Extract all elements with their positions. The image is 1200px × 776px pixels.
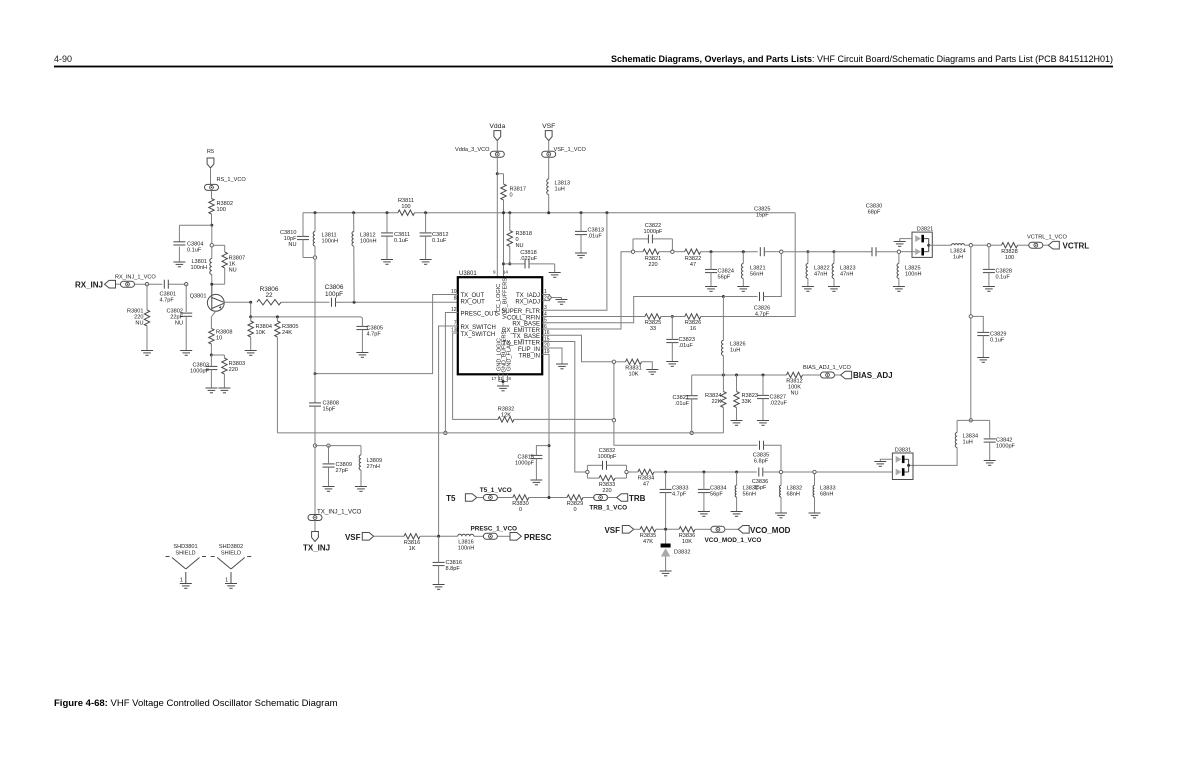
svg-text:C3810: C3810 (280, 230, 296, 236)
svg-text:1uH: 1uH (963, 440, 973, 446)
node junction (502, 380, 505, 383)
wire (497, 535, 510, 537)
svg-text:NU: NU (516, 243, 524, 249)
svg-text:RS_1_VCO: RS_1_VCO (217, 177, 247, 183)
wire (250, 302, 252, 317)
node junction (580, 211, 583, 214)
wire (302, 213, 304, 237)
wire bias bottom rail (277, 432, 723, 434)
wire (223, 374, 225, 388)
svg-text:R3836: R3836 (679, 533, 695, 539)
svg-text:R3801: R3801 (127, 309, 143, 315)
svg-text:TRB_1_VCO: TRB_1_VCO (589, 505, 627, 512)
wire RX_BASE pin 5 (542, 297, 723, 323)
svg-text:C3822: C3822 (645, 223, 661, 229)
svg-text:.01uF: .01uF (588, 234, 603, 240)
svg-text:1000pF: 1000pF (515, 461, 535, 467)
wire (178, 225, 180, 242)
svg-text:NU: NU (175, 321, 183, 327)
svg-text:C3801: C3801 (160, 292, 176, 298)
node junction (352, 211, 355, 214)
node junction (508, 262, 511, 265)
svg-text:C3802: C3802 (167, 309, 183, 315)
wire (210, 355, 212, 366)
svg-text:47nH: 47nH (814, 272, 827, 278)
ground (666, 362, 678, 367)
wire (834, 251, 872, 253)
svg-text:RX_INJ: RX_INJ (75, 281, 103, 290)
wire (762, 399, 764, 421)
wire collector (224, 301, 251, 303)
wire (988, 247, 990, 269)
ground (646, 370, 658, 375)
wire (328, 467, 330, 486)
svg-text:4.7pF: 4.7pF (160, 298, 175, 304)
svg-text:R3832: R3832 (498, 407, 514, 413)
svg-text:0: 0 (573, 507, 576, 513)
wire (722, 375, 724, 392)
svg-text:22: 22 (265, 292, 273, 299)
wire TX_INJ column (314, 259, 316, 403)
svg-text:0.1uF: 0.1uF (394, 238, 409, 244)
net tie Vdda_3_VCO (455, 147, 504, 157)
ground (698, 512, 710, 517)
svg-text:68pF: 68pF (868, 209, 881, 215)
ground (173, 262, 185, 267)
node junction (508, 211, 511, 214)
svg-text:NU: NU (229, 268, 237, 274)
wire (808, 251, 834, 253)
node (313, 444, 316, 447)
svg-text:TX_INJ_1_VCO: TX_INJ_1_VCO (317, 509, 362, 516)
svg-text:C3803: C3803 (193, 363, 209, 369)
capacitor C3826 (754, 292, 770, 317)
svg-text:33: 33 (650, 326, 656, 332)
node (897, 250, 900, 253)
ground (757, 421, 769, 426)
wire (146, 326, 148, 351)
net tie TX_INJ_1_VCO (308, 509, 362, 521)
svg-text:.022uF: .022uF (770, 401, 788, 407)
ground (731, 512, 743, 517)
svg-text:R3825: R3825 (645, 320, 661, 326)
wire (973, 316, 984, 332)
resistor R3807 (222, 252, 245, 274)
svg-text:R3811: R3811 (398, 198, 414, 204)
svg-text:L3811: L3811 (322, 233, 337, 239)
wire (212, 283, 225, 285)
resistor R3835 (640, 527, 656, 546)
ground (433, 585, 445, 590)
svg-text:1: 1 (180, 578, 183, 584)
capacitor C3804 (173, 242, 203, 254)
svg-text:R3834: R3834 (638, 476, 654, 482)
svg-text:C3804: C3804 (187, 242, 203, 248)
svg-text:PRESC: PRESC (524, 533, 552, 542)
resistor R3828 (1001, 243, 1017, 261)
ground (802, 287, 814, 292)
svg-text:C3816: C3816 (446, 560, 462, 566)
svg-text:L3812: L3812 (360, 233, 376, 239)
resistor R3808 (209, 328, 233, 344)
svg-text:TRB_IN: TRB_IN (519, 353, 540, 359)
wire (616, 361, 626, 363)
svg-text:C3826: C3826 (754, 305, 770, 311)
svg-text:SHIELD: SHIELD (175, 550, 195, 556)
wire TRB_IN pin 19 (542, 354, 549, 497)
wire (496, 157, 498, 174)
wire (420, 535, 458, 537)
wire TX_OUT pin 10 (315, 295, 458, 374)
port TRB (617, 494, 646, 503)
wire (973, 244, 988, 246)
svg-text:R3822: R3822 (685, 256, 701, 262)
ground (355, 487, 367, 492)
ground (420, 260, 432, 265)
capacitor C3836 (752, 468, 768, 492)
wire (695, 528, 711, 530)
wire (250, 317, 252, 321)
node junction (437, 535, 440, 538)
wire (281, 301, 330, 303)
net tie RX_INJ_1_VCO (115, 275, 156, 288)
wire D3821 bottom anode (901, 251, 915, 253)
svg-text:100K: 100K (788, 385, 801, 391)
port VCTRL (1048, 241, 1089, 250)
wire (474, 535, 484, 537)
node junction (502, 262, 505, 265)
ground (874, 462, 886, 467)
ground (218, 388, 230, 393)
wire (742, 252, 744, 264)
wire (671, 343, 673, 362)
svg-text:33K: 33K (742, 399, 752, 405)
svg-text:C3818: C3818 (520, 250, 536, 256)
svg-text:RX_OUT: RX_OUT (461, 300, 486, 306)
capacitor C3835 (753, 441, 769, 465)
capacitor C3808 (309, 401, 339, 413)
wire D3821 top anode to ground (900, 238, 912, 240)
wire (722, 356, 724, 376)
ground (245, 351, 257, 356)
node junction (664, 471, 667, 474)
node junction (276, 315, 279, 318)
wire (168, 283, 186, 285)
capacitor C3801 (160, 280, 176, 304)
node (625, 470, 628, 473)
svg-text:RX_INJ_1_VCO: RX_INJ_1_VCO (115, 275, 156, 281)
svg-text:C3805: C3805 (367, 326, 383, 332)
node junction (249, 301, 252, 304)
svg-text:0.1uF: 0.1uF (187, 248, 202, 254)
wire (314, 213, 316, 232)
wire (634, 528, 640, 530)
wire (214, 244, 225, 246)
wire (725, 528, 738, 530)
svg-text:1: 1 (225, 578, 228, 584)
node junction (605, 211, 608, 214)
svg-text:R3812: R3812 (786, 379, 802, 385)
IC U3801 (458, 271, 542, 375)
net tie TRB_1_VCO (589, 495, 627, 512)
capacitor C3825 (754, 206, 770, 256)
wire (691, 399, 693, 431)
svg-text:PRESC_1_VCO: PRESC_1_VCO (471, 526, 518, 533)
resistor R3805 (275, 321, 299, 337)
wire TX_EMITTER pin 15 (542, 342, 585, 473)
svg-text:L3813: L3813 (555, 181, 571, 187)
svg-text:C3823: C3823 (679, 337, 695, 343)
resistor R3836 (679, 527, 695, 546)
svg-text:VCTRL_1_VCO: VCTRL_1_VCO (1027, 234, 1067, 240)
node junction (722, 295, 725, 298)
resistor R3821 (643, 249, 661, 268)
svg-text:SHD3801: SHD3801 (173, 544, 197, 550)
svg-text:220: 220 (229, 367, 238, 373)
svg-text:VCC_BUFFERS: VCC_BUFFERS (503, 278, 509, 319)
node junction (424, 211, 427, 214)
wire (780, 474, 782, 486)
wire (691, 375, 693, 396)
wire (607, 497, 617, 499)
wire (353, 246, 355, 302)
node junction (210, 224, 213, 227)
node (612, 360, 615, 363)
wire TX_BASE pin 16 (542, 335, 612, 362)
svg-text:R3831: R3831 (625, 365, 641, 371)
transistor Q3801 (190, 284, 224, 311)
wire (250, 337, 252, 351)
svg-text:1000pF: 1000pF (598, 454, 618, 460)
svg-text:C3842: C3842 (996, 438, 1012, 444)
svg-text:22pF: 22pF (170, 315, 183, 321)
ground (731, 421, 743, 426)
svg-text:Figure 4-68: VHF Voltage Contr: Figure 4-68: VHF Voltage Controlled Osci… (54, 698, 338, 709)
svg-text:4.7pF: 4.7pF (755, 311, 770, 317)
ground (828, 287, 840, 292)
wire SUPER_FLTR pin 3 (542, 213, 607, 311)
svg-text:12K: 12K (501, 413, 511, 419)
wire (496, 141, 498, 152)
wire (762, 375, 764, 395)
wire (509, 247, 511, 264)
svg-text:1000pF: 1000pF (644, 229, 664, 235)
net tie RS_1_VCO (205, 177, 247, 190)
node junction (496, 172, 499, 175)
wire (833, 279, 835, 287)
svg-text:VSF: VSF (604, 526, 620, 535)
wire (736, 472, 738, 485)
svg-text:L3825: L3825 (905, 266, 921, 272)
resistor R3818 (507, 231, 532, 250)
svg-text:C3808: C3808 (323, 401, 339, 407)
figure caption (54, 698, 338, 709)
wire (783, 471, 813, 473)
wire (722, 408, 724, 433)
svg-text:PRESC_OUT: PRESC_OUT (461, 312, 498, 318)
svg-text:100: 100 (401, 204, 410, 210)
svg-text:C3828: C3828 (996, 269, 1012, 275)
svg-text:R3823: R3823 (742, 393, 758, 399)
svg-text:6.8pF: 6.8pF (754, 459, 769, 465)
node (969, 244, 972, 247)
node (586, 470, 589, 473)
svg-text:100nH: 100nH (191, 265, 207, 271)
wire (116, 283, 121, 285)
wire TX_IADJ RX_IADJ to ground (542, 295, 549, 301)
svg-text:R3818: R3818 (516, 231, 532, 237)
wire (783, 251, 806, 253)
net tie T5_1_VCO (480, 487, 512, 501)
wire (710, 273, 712, 287)
node (779, 470, 782, 473)
capacitor C3805 (356, 326, 383, 338)
wire (703, 493, 705, 512)
wire (386, 236, 388, 259)
svg-text:R3835: R3835 (640, 533, 656, 539)
svg-text:15pF: 15pF (756, 212, 769, 218)
node junction (548, 496, 551, 499)
wire D3821 cathode out (929, 244, 952, 246)
svg-text:C3834: C3834 (710, 486, 726, 492)
ground (775, 513, 787, 518)
port T5 (446, 494, 477, 503)
wire (315, 445, 361, 447)
svg-text:RX_SWITCH: RX_SWITCH (461, 325, 496, 331)
svg-text:TRB: TRB (629, 494, 646, 503)
wire (536, 446, 549, 456)
capacitor C3822 parallel R3821 (633, 223, 672, 250)
node junction (547, 211, 550, 214)
svg-text:T5: T5 (446, 494, 456, 503)
svg-text:10K: 10K (682, 539, 692, 545)
capacitor C3803 (190, 363, 217, 375)
svg-text:Q3801: Q3801 (190, 294, 207, 300)
svg-text:L3833: L3833 (820, 486, 836, 492)
wire (211, 190, 213, 198)
svg-text:56pF: 56pF (718, 275, 731, 281)
wire (211, 214, 213, 225)
wire (214, 311, 216, 314)
capacitor C3810 (280, 230, 309, 248)
svg-text:C3830: C3830 (866, 203, 882, 209)
inductor L3816 (458, 534, 474, 551)
wire (361, 318, 363, 326)
page number 4-90 (54, 54, 72, 64)
ground (556, 364, 568, 369)
wire (361, 317, 362, 318)
svg-text:56pF: 56pF (710, 492, 723, 498)
svg-text:R3802: R3802 (217, 201, 233, 207)
svg-text:R3829: R3829 (567, 501, 583, 507)
wire (514, 418, 612, 420)
wire D3831 top anode to ground (880, 459, 892, 461)
wire (135, 283, 163, 285)
capacitor C3832 parallel R3833 (587, 448, 626, 478)
svg-text:VCC_LOGIC: VCC_LOGIC (496, 284, 502, 316)
svg-text:COLL_RFIN: COLL_RFIN (507, 316, 540, 322)
wire (529, 263, 555, 265)
svg-text:C3821: C3821 (673, 395, 689, 401)
wire (211, 354, 224, 356)
inductor L3824 (950, 244, 966, 261)
svg-text:24K: 24K (282, 330, 292, 336)
svg-text:R5: R5 (207, 149, 214, 155)
svg-text:1000pF: 1000pF (996, 444, 1016, 450)
wire (314, 521, 316, 532)
wire GND pins (498, 374, 500, 381)
wire (656, 528, 679, 530)
pin TX_INJ (303, 532, 330, 553)
svg-text:R3821: R3821 (645, 256, 661, 262)
resistor R3834 (638, 469, 654, 487)
node (313, 256, 316, 259)
svg-text:Vdda_3_VCO: Vdda_3_VCO (455, 147, 490, 153)
wire (276, 317, 278, 321)
svg-text:L3832: L3832 (787, 486, 803, 492)
wire (613, 364, 615, 419)
svg-text:68nH: 68nH (787, 492, 800, 498)
svg-text:R3833: R3833 (599, 482, 615, 488)
svg-text:47: 47 (690, 262, 696, 268)
wire (425, 213, 427, 233)
resistor R3830 (512, 495, 529, 513)
wire (178, 247, 180, 262)
wire (583, 497, 595, 499)
wire (803, 374, 821, 376)
wire (764, 445, 782, 470)
svg-text:R3824: R3824 (705, 393, 721, 399)
svg-text:VCO_MOD_1_VCO: VCO_MOD_1_VCO (705, 537, 762, 544)
svg-text:0.1uF: 0.1uF (996, 275, 1011, 281)
wire (251, 316, 362, 318)
wire (224, 268, 226, 284)
ground (556, 300, 568, 305)
node junction (671, 315, 674, 318)
wire (361, 330, 363, 353)
svg-text:15pF: 15pF (323, 407, 336, 413)
svg-text:U3801: U3801 (459, 271, 477, 277)
wire (509, 213, 511, 231)
header title text (611, 54, 1113, 64)
svg-text:Vdda: Vdda (489, 123, 505, 130)
svg-text:R3828: R3828 (1001, 249, 1017, 255)
U3801 right pin names (501, 293, 540, 359)
svg-text:4.7pF: 4.7pF (672, 492, 687, 498)
ground (530, 480, 542, 485)
capacitor C3816 (433, 560, 462, 572)
svg-text:NU: NU (790, 391, 798, 397)
inductor L3832 (780, 485, 803, 497)
resistor R3829 (567, 495, 583, 513)
wire (504, 263, 526, 265)
wire (386, 213, 388, 233)
wire (814, 474, 816, 486)
node junction (210, 283, 213, 286)
wire (635, 251, 643, 253)
wire (211, 276, 213, 284)
svg-text:L3824: L3824 (950, 248, 966, 254)
svg-text:C3806: C3806 (325, 284, 344, 291)
resistor R3801 (127, 309, 150, 327)
resistor R3823 (734, 392, 758, 408)
wire VCC bus (303, 212, 398, 214)
capacitor C3828 (983, 269, 1012, 281)
ground (809, 513, 821, 518)
wire (876, 251, 897, 253)
wire (276, 337, 278, 433)
inductor L3812 (352, 232, 376, 247)
